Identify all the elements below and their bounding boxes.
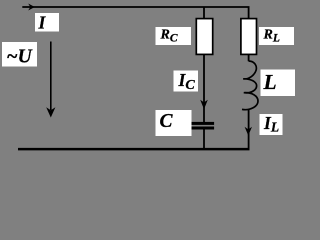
inductor L coil (three right-bulging loops) [242, 61, 258, 110]
label box IL [260, 114, 283, 135]
arrow: current IC on capacitor branch (points down) [200, 100, 208, 110]
arrow: current IL on inductor branch (points down) [245, 127, 252, 136]
label box C [156, 110, 192, 136]
wire: RL resistor bottom to inductor top [248, 54, 250, 61]
label box I [35, 13, 59, 32]
resistor RC (white box) [196, 19, 212, 55]
wire: RC branch vertical drop from top wire to RC resistor [203, 7, 205, 19]
label box RC [156, 27, 192, 45]
resistor RL (white box) [241, 19, 257, 55]
svg-text:C: C [160, 111, 174, 132]
label box L [261, 70, 296, 97]
arrow: current I on top wire (points right) [28, 4, 35, 11]
wire: inductor bottom through IL arrow down to bottom wire [248, 110, 250, 149]
capacitor C plates [192, 122, 215, 125]
wire: bottom horizontal [18, 148, 250, 151]
svg-text:L: L [263, 70, 277, 94]
label box RL [259, 27, 294, 45]
label box ~U [2, 42, 37, 67]
svg-text:I: I [38, 12, 47, 32]
arrow: source voltage ~U (vertical line with down arrowhead) [50, 42, 52, 111]
wire: below capacitor down to bottom wire [203, 129, 205, 149]
label box IC [174, 71, 199, 92]
svg-text:~U: ~U [7, 47, 33, 68]
wire: RC resistor bottom down through IC arrow to capacitor top plate [203, 54, 205, 122]
wire: top horizontal from source to RL branch corner, then down to RL resistor [22, 7, 248, 19]
